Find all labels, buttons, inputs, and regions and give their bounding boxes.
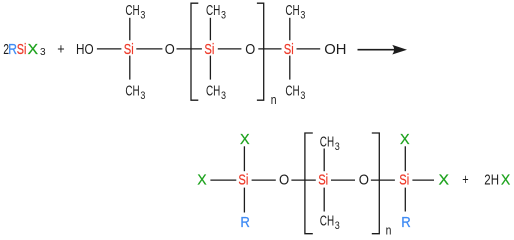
wire Si3 down (289, 56, 291, 80)
svg-text:Si: Si (318, 172, 328, 189)
svg-text:3: 3 (140, 90, 145, 102)
wire Sic-X (412, 179, 434, 181)
svg-text:CH: CH (285, 2, 299, 19)
bracket left bottom-structure (305, 133, 313, 234)
wire Sib down (323, 188, 325, 212)
svg-text:CH: CH (206, 2, 220, 19)
svg-text:X: X (501, 172, 510, 189)
bracket right top-structure (257, 3, 264, 100)
svg-text:X: X (240, 131, 250, 148)
wire Sia down (243, 188, 245, 213)
bracket right bottom-structure (372, 133, 380, 234)
svg-text:R: R (240, 214, 250, 231)
svg-text:3: 3 (300, 9, 305, 21)
svg-text:Si: Si (399, 172, 409, 189)
svg-text:CH: CH (285, 83, 299, 100)
svg-text:O: O (165, 41, 175, 58)
methyl CH3 above Si2 (206, 2, 226, 21)
svg-text:CH: CH (125, 83, 139, 100)
svg-text:O: O (359, 172, 369, 189)
svg-text:+: + (57, 41, 65, 58)
svg-text:CH: CH (320, 213, 334, 230)
svg-text:O: O (245, 41, 255, 58)
wire Sib up (323, 149, 325, 172)
methyl CH3 above Si3 (285, 2, 305, 21)
svg-text:OH: OH (324, 41, 346, 58)
methyl CH3 below Sib (320, 213, 340, 232)
svg-text:Si: Si (124, 41, 134, 58)
wire Sib-Ob (331, 179, 355, 181)
svg-text:HO: HO (76, 41, 94, 58)
svg-text:Si: Si (238, 172, 248, 189)
wire Sic up (404, 146, 406, 171)
svg-text:3: 3 (300, 90, 305, 102)
wire Si1-O1 (136, 48, 162, 50)
wire Si3 up (289, 18, 291, 41)
reaction arrow (358, 45, 408, 55)
methyl CH3 above Si1 (125, 2, 145, 21)
wire Oa-Sib (291, 179, 315, 181)
wire Si2 down (209, 56, 211, 80)
wire Sia-Oa (252, 179, 276, 181)
methyl CH3 above Sib (320, 134, 340, 153)
wire Sic down (404, 188, 406, 212)
svg-text:X: X (400, 131, 410, 148)
svg-text:R: R (8, 41, 17, 58)
wire Si1 up (129, 18, 131, 41)
svg-text:3: 3 (335, 220, 340, 232)
reactant formula 2RSiX3 (3, 41, 46, 58)
wire Si1 down (129, 56, 131, 80)
svg-text:3: 3 (221, 90, 226, 102)
svg-text:Si: Si (284, 41, 294, 58)
wire Ob-Sic (371, 179, 395, 181)
svg-text:Si: Si (17, 41, 27, 58)
svg-text:CH: CH (125, 2, 139, 19)
svg-text:3: 3 (40, 46, 46, 58)
svg-text:R: R (401, 214, 411, 231)
wire HO-Si1 (97, 48, 122, 50)
wire O2-Si3 (258, 48, 281, 50)
methyl CH3 below Si3 (285, 83, 305, 102)
wire Si3-OH (297, 48, 321, 50)
svg-text:O: O (279, 172, 289, 189)
svg-text:+: + (462, 172, 469, 189)
svg-text:X: X (28, 41, 38, 58)
svg-text:3: 3 (221, 9, 226, 21)
wire O1-Si2 (177, 48, 202, 50)
wire Sia up (243, 146, 245, 171)
byproduct 2HX (484, 172, 510, 189)
wire Si2-O2 (218, 48, 242, 50)
svg-text:X: X (439, 172, 449, 189)
wire Si2 up (209, 18, 211, 41)
svg-text:CH: CH (320, 134, 334, 151)
svg-text:2H: 2H (484, 172, 499, 189)
bracket left top-structure (191, 3, 198, 100)
svg-text:n: n (386, 223, 392, 238)
svg-text:X: X (197, 172, 206, 189)
svg-text:CH: CH (206, 83, 220, 100)
methyl CH3 below Si2 (206, 83, 226, 102)
svg-text:Si: Si (204, 41, 214, 58)
methyl CH3 below Si1 (125, 83, 145, 102)
wire X-Sia (210, 179, 236, 181)
svg-text:3: 3 (140, 9, 145, 21)
svg-text:3: 3 (335, 141, 340, 153)
svg-text:n: n (271, 92, 277, 107)
